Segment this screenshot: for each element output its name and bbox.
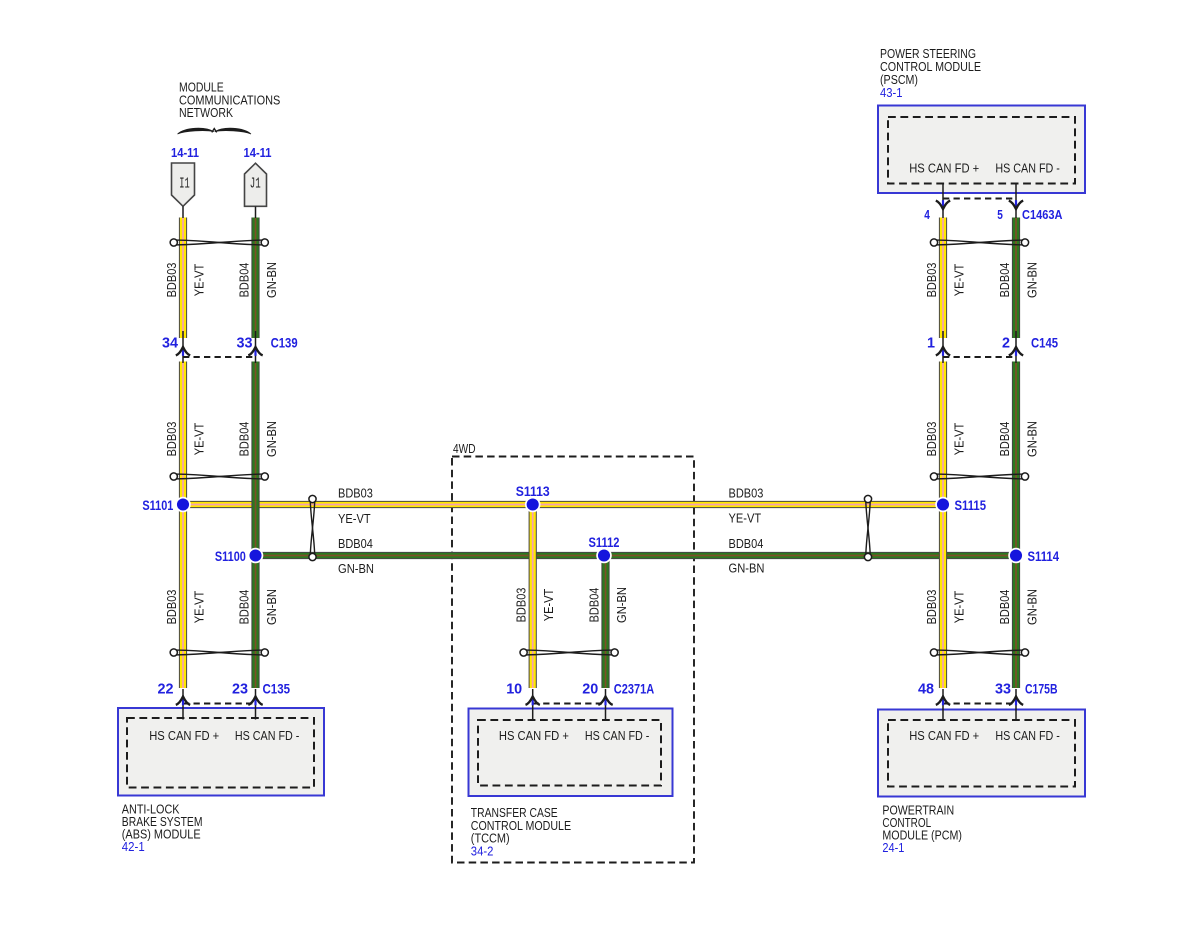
label YE-VT right lower yellow — [952, 591, 967, 624]
label GN-BN right lower green — [1025, 589, 1040, 625]
wire BDB04 GN-BN left middle segment — [251, 362, 259, 689]
label BDB04 right of 4WD box — [729, 536, 764, 551]
label HS CAN FD - in PSCM — [995, 160, 1060, 175]
label BDB04 left mid green — [237, 422, 252, 457]
svg-text:BDB04: BDB04 — [729, 536, 764, 551]
splice S1113 — [516, 483, 550, 513]
svg-text:BDB04: BDB04 — [237, 263, 252, 298]
label 14-11 above J1 — [244, 145, 272, 160]
svg-text:YE-VT: YE-VT — [541, 589, 556, 622]
wire BDB03 YE-VT left upper segment — [179, 218, 187, 339]
twisted pair symbol right lower — [930, 649, 1028, 656]
svg-text:S1113: S1113 — [516, 483, 550, 499]
svg-text:BDB03: BDB03 — [164, 590, 179, 625]
label GN-BN left of 4WD box — [338, 561, 374, 576]
label BDB04 left of 4WD box — [338, 536, 373, 551]
wire BDB03 YE-VT TCCM segment — [529, 505, 537, 689]
in-line connector C175B pins 48 33 — [918, 681, 1058, 706]
twisted pair symbol right upper — [930, 239, 1028, 246]
svg-text:BDB03: BDB03 — [514, 588, 529, 623]
label HS CAN FD - in PCM — [995, 728, 1060, 743]
twisted pair symbol TCCM — [520, 649, 618, 656]
svg-text:NETWORK: NETWORK — [179, 105, 233, 120]
label HS CAN FD + in TCCM — [499, 728, 569, 743]
svg-text:YE-VT: YE-VT — [952, 591, 967, 624]
label BDB04 right mid green — [997, 422, 1012, 457]
label GN-BN left upper green — [264, 262, 279, 298]
svg-text:42-1: 42-1 — [122, 839, 145, 854]
svg-text:24-1: 24-1 — [882, 840, 904, 855]
label YE-VT left lower yellow — [192, 591, 207, 624]
label BDB03 TCCM yellow — [514, 588, 529, 623]
svg-text:S1112: S1112 — [589, 534, 620, 550]
svg-text:HS CAN FD +: HS CAN FD + — [909, 160, 979, 175]
module box PCM — [878, 710, 1085, 797]
svg-text:5: 5 — [997, 207, 1003, 222]
svg-text:BDB04: BDB04 — [997, 590, 1012, 625]
4WD region dashed box — [452, 441, 694, 863]
svg-text:S1114: S1114 — [1028, 548, 1060, 564]
label HS CAN FD + in PCM — [909, 728, 979, 743]
twisted pair symbol left lower — [170, 649, 268, 656]
twisted pair symbol on bus right — [864, 495, 871, 560]
svg-text:14-11: 14-11 — [244, 145, 272, 160]
splice S1100 — [215, 548, 263, 564]
wire BDB03 YE-VT right upper segment — [939, 218, 947, 339]
svg-text:HS CAN FD -: HS CAN FD - — [585, 728, 650, 743]
wire bus BDB03 YE-VT (yellow horizontal) — [183, 501, 943, 508]
svg-text:GN-BN: GN-BN — [338, 561, 374, 576]
svg-text:2: 2 — [1002, 336, 1010, 352]
label BDB03 left mid yellow — [164, 422, 179, 457]
svg-text:BDB04: BDB04 — [338, 536, 373, 551]
svg-text:YE-VT: YE-VT — [338, 511, 371, 526]
label TCCM title — [471, 805, 571, 858]
label GN-BN left lower green — [264, 589, 279, 625]
svg-text:1: 1 — [927, 336, 935, 352]
label GN-BN TCCM green — [614, 587, 629, 623]
splice S1101 — [142, 497, 190, 513]
svg-text:I1: I1 — [179, 176, 190, 193]
svg-text:BDB04: BDB04 — [997, 422, 1012, 457]
label GN-BN right mid green — [1025, 421, 1040, 457]
label YE-VT right mid yellow — [952, 423, 967, 456]
label HS CAN FD - in ABS — [235, 728, 300, 743]
svg-text:GN-BN: GN-BN — [264, 262, 279, 298]
svg-text:33: 33 — [995, 682, 1011, 698]
svg-text:HS CAN FD +: HS CAN FD + — [149, 728, 219, 743]
connector J1 — [245, 163, 267, 218]
label PCM title — [882, 802, 962, 855]
svg-text:4WD: 4WD — [453, 441, 476, 456]
label GN-BN left mid green — [264, 421, 279, 457]
svg-text:HS CAN FD -: HS CAN FD - — [995, 160, 1060, 175]
wire ABS internal leads — [183, 689, 256, 720]
twisted pair symbol left middle — [170, 473, 268, 480]
svg-text:BDB03: BDB03 — [924, 422, 939, 457]
svg-text:10: 10 — [506, 682, 522, 698]
svg-text:23: 23 — [232, 682, 248, 698]
label BDB03 right upper yellow — [924, 263, 939, 298]
svg-text:BDB03: BDB03 — [164, 422, 179, 457]
svg-text:BDB03: BDB03 — [924, 263, 939, 298]
svg-text:S1115: S1115 — [955, 497, 987, 513]
svg-text:BDB04: BDB04 — [997, 263, 1012, 298]
svg-text:14-11: 14-11 — [171, 145, 199, 160]
svg-text:S1101: S1101 — [142, 497, 173, 513]
svg-text:BDB03: BDB03 — [729, 486, 764, 501]
module box TCCM — [469, 709, 673, 797]
svg-text:J1: J1 — [250, 176, 261, 193]
svg-text:BDB03: BDB03 — [164, 263, 179, 298]
label HS CAN FD + in ABS — [149, 728, 219, 743]
splice S1115 — [935, 497, 986, 513]
svg-text:33: 33 — [237, 336, 253, 352]
wire BDB04 GN-BN right middle segment — [1012, 362, 1020, 689]
svg-text:YE-VT: YE-VT — [192, 423, 207, 456]
label BDB03 right mid yellow — [924, 422, 939, 457]
wire BDB04 GN-BN right upper segment — [1012, 218, 1020, 339]
wire BDB03 YE-VT right middle segment — [939, 362, 947, 689]
svg-text:YE-VT: YE-VT — [952, 264, 967, 297]
label 14-11 above I1 — [171, 145, 199, 160]
brace under network label — [178, 128, 252, 134]
svg-text:HS CAN FD -: HS CAN FD - — [235, 728, 300, 743]
svg-text:BDB04: BDB04 — [587, 588, 602, 623]
wire TCCM internal leads — [533, 689, 606, 720]
svg-text:GN-BN: GN-BN — [1025, 262, 1040, 298]
connector I1 — [172, 163, 195, 218]
svg-text:C135: C135 — [263, 681, 291, 697]
svg-text:GN-BN: GN-BN — [1025, 589, 1040, 625]
svg-text:22: 22 — [158, 682, 174, 698]
label BDB03 left of 4WD box — [338, 486, 373, 501]
label PSCM title — [880, 46, 981, 100]
in-line connector C2371A pins 10 20 — [506, 681, 654, 706]
svg-text:HS CAN FD -: HS CAN FD - — [995, 728, 1060, 743]
svg-text:BDB03: BDB03 — [338, 486, 373, 501]
svg-text:GN-BN: GN-BN — [264, 421, 279, 457]
in-line connector C1463A pins 4 5 — [924, 199, 1062, 223]
label MODULE COMMUNICATIONS NETWORK — [179, 80, 280, 121]
twisted pair symbol left upper — [170, 239, 268, 246]
label BDB04 TCCM green — [587, 588, 602, 623]
label BDB04 left lower green — [237, 590, 252, 625]
wire BDB04 GN-BN TCCM segment — [601, 556, 609, 689]
label ABS title — [122, 801, 203, 853]
label YE-VT left of 4WD box — [338, 511, 371, 526]
module box ABS — [118, 708, 324, 796]
svg-text:HS CAN FD +: HS CAN FD + — [909, 728, 979, 743]
label HS CAN FD + in PSCM — [909, 160, 979, 175]
svg-text:C1463A: C1463A — [1022, 207, 1062, 222]
svg-text:YE-VT: YE-VT — [952, 423, 967, 456]
svg-text:BDB04: BDB04 — [237, 422, 252, 457]
splice S1114 — [1008, 548, 1059, 564]
label YE-VT right upper yellow — [952, 264, 967, 297]
svg-text:S1100: S1100 — [215, 548, 246, 564]
svg-text:GN-BN: GN-BN — [264, 589, 279, 625]
svg-text:C175B: C175B — [1025, 681, 1058, 697]
svg-text:C139: C139 — [271, 335, 298, 351]
label YE-VT TCCM yellow — [541, 589, 556, 622]
svg-text:34-2: 34-2 — [471, 843, 494, 858]
svg-text:48: 48 — [918, 682, 934, 698]
svg-text:43-1: 43-1 — [880, 85, 903, 100]
svg-text:GN-BN: GN-BN — [729, 561, 765, 576]
label YE-VT left upper yellow — [192, 264, 207, 297]
label BDB04 right lower green — [997, 590, 1012, 625]
svg-text:BDB04: BDB04 — [237, 590, 252, 625]
wire PSCM internal leads — [943, 184, 1016, 219]
label BDB03 left upper yellow — [164, 263, 179, 298]
wire BDB04 GN-BN left upper segment — [251, 218, 259, 339]
svg-text:4: 4 — [924, 207, 930, 222]
svg-text:20: 20 — [582, 682, 598, 698]
wire PCM internal leads — [943, 689, 1016, 720]
svg-text:YE-VT: YE-VT — [729, 511, 762, 526]
module box PSCM — [878, 106, 1085, 194]
label HS CAN FD - in TCCM — [585, 728, 650, 743]
label GN-BN right upper green — [1025, 262, 1040, 298]
label BDB03 right of 4WD box — [729, 486, 764, 501]
label BDB03 left lower yellow — [164, 590, 179, 625]
twisted pair symbol right middle — [930, 473, 1028, 480]
svg-text:C2371A: C2371A — [614, 681, 654, 697]
svg-text:GN-BN: GN-BN — [1025, 421, 1040, 457]
svg-text:HS CAN FD +: HS CAN FD + — [499, 728, 569, 743]
label BDB04 left upper green — [237, 263, 252, 298]
svg-text:C145: C145 — [1031, 335, 1058, 351]
wire BDB03 YE-VT left middle segment — [179, 362, 187, 689]
twisted pair symbol on bus left — [309, 495, 316, 560]
in-line connector C145 pins 1 2 — [927, 331, 1058, 363]
svg-text:YE-VT: YE-VT — [192, 264, 207, 297]
in-line connector C135 pins 22 23 — [158, 681, 291, 706]
label BDB03 right lower yellow — [924, 590, 939, 625]
svg-text:34: 34 — [162, 336, 179, 352]
label YE-VT left mid yellow — [192, 423, 207, 456]
svg-text:GN-BN: GN-BN — [614, 587, 629, 623]
label YE-VT right of 4WD box — [729, 511, 762, 526]
label BDB04 right upper green — [997, 263, 1012, 298]
in-line connector C139 pins 34 33 — [162, 331, 298, 363]
wire bus BDB04 GN-BN (green horizontal) — [256, 552, 1017, 559]
svg-text:YE-VT: YE-VT — [192, 591, 207, 624]
splice S1112 — [589, 534, 620, 564]
label GN-BN right of 4WD box — [729, 561, 765, 576]
svg-text:BDB03: BDB03 — [924, 590, 939, 625]
